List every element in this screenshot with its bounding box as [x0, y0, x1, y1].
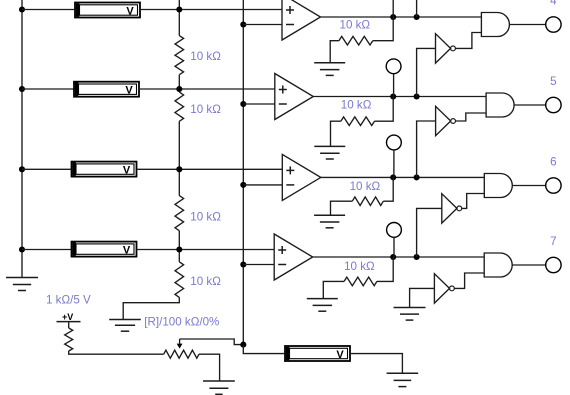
svg-text:10 kΩ: 10 kΩ: [190, 210, 221, 223]
op-amp A1: [282, 0, 321, 40]
wire left ground rail: [21, 0, 23, 278]
wire probe stem row 3: [393, 150, 395, 178]
wire ladder to comparator A1 + input: [179, 9, 282, 11]
wire voltmeter U4 to ladder: [137, 249, 180, 251]
wire A3 out to R7: [383, 177, 393, 201]
label R 100 kOhm 0%: [144, 316, 219, 329]
node ladder row 3: [176, 166, 182, 172]
wire R5 to ground: [330, 41, 339, 63]
wire inverter U6 input: [417, 121, 436, 177]
wire R2 to row3: [178, 121, 180, 195]
label output 4: [550, 0, 557, 8]
resistor R3 10k: [175, 196, 184, 231]
label output 7: [550, 235, 556, 248]
svg-text:6: 6: [550, 156, 556, 169]
ground left rail: [6, 278, 38, 291]
wire R6 to ground: [331, 121, 341, 146]
wire ladder top: [178, 0, 180, 36]
wire R9 to pot: [69, 351, 164, 354]
node minus row 1: [240, 21, 246, 27]
label output 6: [550, 156, 556, 169]
label R4 10 kOhm: [190, 275, 221, 288]
voltmeter U9: [285, 346, 350, 361]
and-gate U4: [484, 253, 512, 277]
node rail row 1: [19, 6, 25, 12]
ground R8: [307, 299, 338, 312]
node ladder row 1: [176, 6, 182, 12]
wire R1 to row2: [178, 75, 180, 92]
label R7 10 kOhm: [350, 180, 381, 193]
voltmeter U4: [72, 242, 137, 257]
wire R8 to ground: [323, 281, 344, 298]
wire A2 output: [313, 96, 486, 98]
svg-text:V: V: [125, 85, 133, 97]
wire inverter U8 output: [454, 273, 484, 288]
node rail row 4: [19, 246, 25, 252]
label R6 10 kOhm: [341, 99, 372, 112]
label output 5: [550, 75, 556, 88]
svg-text:10 kΩ: 10 kΩ: [190, 103, 221, 116]
wire inverter U8 input: [410, 288, 435, 307]
terminal output 6: [546, 178, 561, 193]
node ladder row 2: [176, 86, 182, 92]
resistor R5 10k: [339, 36, 373, 45]
wire ladder to comparator A4 + input: [179, 249, 274, 251]
wire minus to comparator A4 - input: [243, 264, 274, 266]
terminal probe row 4: [387, 223, 402, 238]
ground R6: [314, 146, 345, 159]
ground voltmeter U9: [387, 373, 419, 386]
svg-text:V: V: [123, 245, 131, 257]
wire R4 to ground: [123, 297, 179, 319]
inverter U8: [434, 274, 454, 303]
wire minus column: [242, 0, 244, 345]
svg-text:+V: +V: [62, 312, 73, 322]
wire U3 to terminal: [512, 185, 545, 187]
wire A1 out to R5: [373, 17, 393, 41]
label R8 10 kOhm: [344, 260, 375, 273]
ground ladder bottom: [109, 320, 141, 332]
node A2 out col1: [390, 93, 396, 99]
voltmeter U3: [72, 162, 137, 177]
wire wiper to node: [180, 339, 244, 345]
node A4 out col1: [390, 254, 396, 260]
wire inverter U7 input: [417, 208, 442, 257]
wire col1 top: [392, 0, 394, 17]
wire inverter U7 output: [462, 194, 485, 209]
label R1 10 kOhm: [190, 50, 221, 63]
ground R5: [314, 63, 345, 76]
inverter U6: [436, 106, 456, 135]
terminal probe row 3: [387, 135, 402, 150]
resistor R1 10k: [175, 36, 184, 75]
wire rail to voltmeter U2: [22, 88, 74, 90]
wire U2 to terminal: [514, 104, 546, 106]
wire ladder to comparator A3 + input: [179, 168, 282, 170]
node A3 out col1: [390, 174, 396, 180]
ground pot: [203, 381, 235, 394]
power +V: [57, 312, 81, 322]
wire voltmeter U3 to ladder: [137, 168, 180, 170]
wire inverter U5 output: [455, 33, 481, 49]
wire minus to comparator A1 - input: [243, 24, 282, 26]
wire U1 to terminal: [509, 24, 545, 26]
node rail row 3: [19, 166, 25, 172]
node minus row 2: [240, 101, 246, 107]
op-amp A3: [282, 154, 321, 200]
wire A1 output: [321, 16, 482, 18]
wire inverter U5 input: [417, 48, 436, 96]
wire A4 out to R8: [377, 257, 393, 281]
node A2 out col2: [414, 93, 420, 99]
terminal probe row 2: [386, 59, 401, 74]
node A3 out col2: [414, 174, 420, 180]
svg-text:10 kΩ: 10 kΩ: [344, 260, 375, 273]
wire probe stem row 2: [393, 74, 395, 97]
wire R3 to row4: [178, 231, 180, 262]
terminal output 5: [546, 97, 561, 112]
label R2 10 kOhm: [190, 103, 221, 116]
wire probe stem row 4: [393, 237, 395, 257]
resistor R9 1k: [65, 328, 73, 351]
and-gate U2: [486, 93, 514, 117]
node minus row 3: [240, 182, 246, 188]
svg-text:[R]/100 kΩ/0%: [R]/100 kΩ/0%: [144, 316, 219, 329]
wire rail to voltmeter U3: [22, 168, 72, 170]
and-gate U1: [481, 13, 509, 37]
and-gate U3: [484, 174, 512, 198]
svg-text:10 kΩ: 10 kΩ: [350, 180, 381, 193]
resistor R6 10k: [341, 117, 375, 126]
node A4 out col2: [414, 254, 420, 260]
wire rail to voltmeter U1: [22, 9, 75, 11]
wire node to voltmeter U9: [243, 345, 285, 354]
resistor R2 10k: [175, 92, 184, 121]
voltmeter U1: [75, 3, 140, 18]
pot wiper arrow: [177, 339, 183, 349]
svg-text:5: 5: [550, 75, 556, 88]
wire minus to comparator A2 - input: [243, 103, 274, 105]
wire minus to comparator A3 - input: [243, 184, 282, 186]
svg-text:4: 4: [550, 0, 557, 8]
wire A4 output: [313, 256, 485, 258]
inverter U7: [442, 194, 462, 223]
resistor R8 10k: [344, 277, 377, 286]
node rail row 2: [19, 86, 25, 92]
svg-text:10 kΩ: 10 kΩ: [340, 18, 371, 31]
node wiper junction: [240, 342, 246, 348]
label R5 10 kOhm: [340, 18, 371, 31]
resistor R7 10k: [352, 197, 383, 206]
voltmeter U2: [74, 82, 139, 97]
op-amp A2: [275, 74, 314, 120]
wire ladder to comparator A2 + input: [179, 88, 274, 90]
svg-text:V: V: [126, 6, 134, 18]
op-amp A4: [274, 234, 313, 280]
wire +V to R9: [68, 322, 70, 328]
wire col2 top: [416, 0, 418, 17]
ground inverter U8: [394, 308, 426, 321]
potentiometer R10: [164, 350, 199, 358]
inverter U5: [436, 34, 456, 63]
wire U4 to terminal: [512, 264, 546, 266]
label 1 kOhm 5 V: [46, 293, 91, 306]
wire voltmeter U1 to ladder: [140, 9, 179, 11]
node ladder row 4: [176, 246, 182, 252]
wire pot to ground: [199, 354, 220, 381]
svg-text:10 kΩ: 10 kΩ: [341, 99, 372, 112]
wire rail to voltmeter U4: [22, 249, 72, 251]
svg-text:V: V: [123, 165, 131, 177]
svg-text:7: 7: [550, 235, 556, 248]
wire A3 output: [321, 176, 485, 178]
label R3 10 kOhm: [190, 210, 221, 223]
svg-text:1 kΩ/5 V: 1 kΩ/5 V: [46, 293, 91, 306]
wire voltmeter U9 to ground: [350, 354, 402, 374]
ground R7: [314, 215, 345, 228]
node A1 out col2: [414, 14, 420, 20]
node minus row 4: [240, 261, 246, 267]
terminal output 4: [546, 17, 561, 32]
svg-text:10 kΩ: 10 kΩ: [190, 275, 221, 288]
wire R7 to ground: [331, 201, 353, 215]
svg-text:V: V: [336, 349, 344, 361]
svg-text:10 kΩ: 10 kΩ: [190, 50, 221, 63]
wire inverter U6 output: [456, 113, 487, 121]
terminal output 7: [546, 257, 561, 272]
wire A2 out to R6: [375, 97, 394, 122]
node A1 out col1: [390, 14, 396, 20]
resistor R4 10k: [175, 262, 184, 298]
wire voltmeter U2 to ladder: [139, 88, 179, 90]
